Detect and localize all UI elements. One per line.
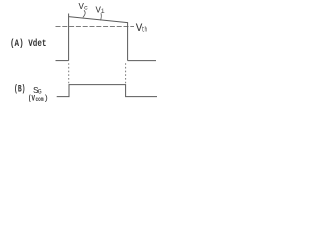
svg-text:(B): (B) [14,84,26,96]
svg-text:c: c [84,5,88,12]
svg-text:(A) Vdet: (A) Vdet [10,38,47,50]
svg-text:G: G [38,89,42,96]
svg-text:i: i [101,8,105,15]
svg-text:): ) [44,94,49,104]
svg-text:(V: (V [28,94,36,104]
svg-text:th: th [142,26,148,34]
